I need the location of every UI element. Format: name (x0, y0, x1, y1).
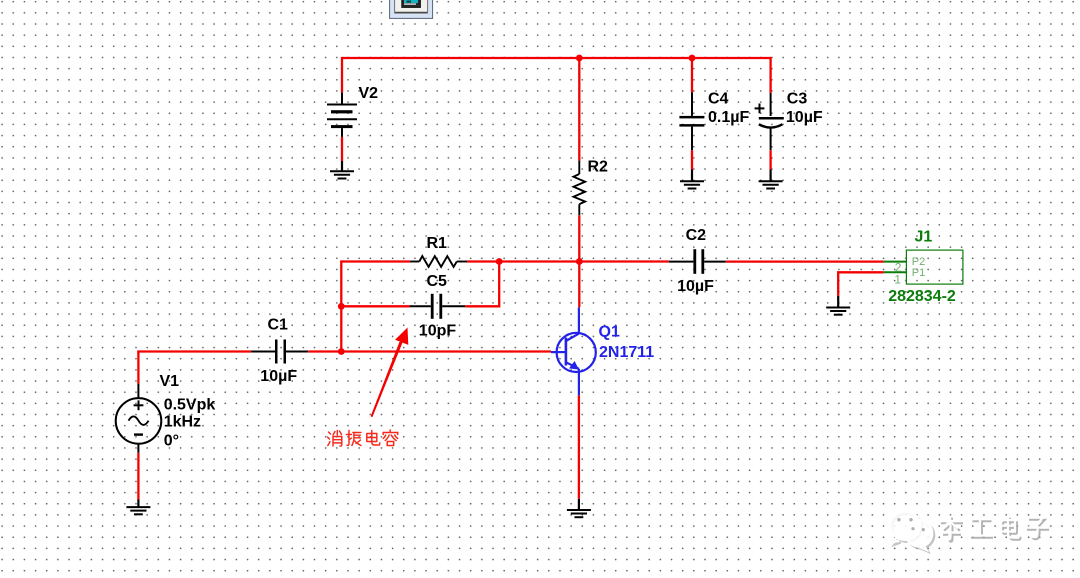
svg-text:V2: V2 (359, 85, 379, 102)
ground (C3) (759, 169, 783, 188)
wire: R2 to collector junction (578, 215, 580, 307)
wire: C5 right + riser to R1 row (465, 262, 499, 307)
glyph rong (383, 430, 398, 446)
wire: J1 pin1 to ground (838, 272, 883, 296)
svg-text:10µF: 10µF (786, 109, 823, 126)
svg-text:10µF: 10µF (260, 368, 297, 385)
capacitor C3 (polarized) (755, 93, 784, 150)
wire: C2 to J1 (726, 260, 884, 262)
capacitor C2 (669, 249, 726, 274)
svg-text:R1: R1 (427, 235, 448, 252)
watermark text li gong dian zi (939, 516, 1049, 542)
wire: collector row to C2 (579, 260, 668, 262)
capacitor C5 (410, 294, 466, 319)
wire: main row V1 to C1 (138, 352, 251, 353)
svg-text:R2: R2 (588, 159, 609, 176)
glyph dian (367, 431, 380, 446)
transistor Q1 (551, 307, 596, 395)
svg-text:1kHz: 1kHz (164, 413, 201, 430)
wire: V1 bottom lead (137, 453, 139, 500)
wire: C3 branch bottom (769, 150, 771, 169)
junction (feedback row / R2 column) (576, 258, 583, 265)
wire: left feedback riser (340, 262, 342, 352)
svg-text:1: 1 (894, 272, 901, 286)
annotation arrow (371, 328, 409, 418)
capacitor C1 (251, 340, 308, 364)
connector J1 (884, 250, 963, 286)
svg-text:C3: C3 (787, 91, 808, 108)
wire: V2 branch bottom (341, 137, 343, 161)
ground (V1) (126, 500, 150, 515)
wire: C3 branch top (rail corner) (770, 58, 771, 93)
svg-text:0.5Vpk: 0.5Vpk (164, 396, 216, 413)
watermark logo (890, 511, 934, 552)
wire: C4 branch top (691, 58, 693, 92)
svg-text:P1: P1 (912, 267, 925, 279)
svg-text:J1: J1 (915, 229, 933, 246)
annotation text 消振电容 (328, 430, 398, 446)
junction (rail / R2) (576, 55, 583, 62)
svg-text:0°: 0° (164, 432, 179, 449)
svg-text:C2: C2 (686, 227, 707, 244)
wire: C5 row left (341, 305, 409, 307)
wire: C4 branch bottom (691, 150, 693, 169)
svg-text:10pF: 10pF (419, 323, 457, 340)
wire: feedback row R1 left (341, 262, 410, 263)
glyph xiao (328, 431, 342, 447)
resistor R2 (574, 161, 586, 216)
ground (V2) (330, 161, 354, 179)
junction (main row / left riser) (338, 348, 345, 355)
wire: R2 branch from rail (578, 58, 580, 161)
svg-text:2N1711: 2N1711 (599, 344, 654, 361)
junction (rail / C4) (689, 55, 696, 62)
svg-text:C1: C1 (268, 316, 289, 333)
ground (Q1 emitter) (567, 499, 591, 517)
source V1 (116, 384, 162, 453)
capacitor C4 (679, 92, 704, 150)
junction (R1 / C5 riser) (496, 258, 503, 265)
glyph zhen (346, 431, 361, 446)
svg-text:C5: C5 (427, 273, 448, 290)
svg-text:10µF: 10µF (677, 278, 714, 295)
resistor R1 (410, 256, 467, 267)
wire: V2 branch top (341, 57, 343, 93)
svg-text:Q1: Q1 (599, 323, 620, 340)
wire: C1 to base (308, 350, 551, 352)
wire: R1 right to junction (467, 260, 499, 262)
svg-text:V1: V1 (160, 373, 180, 390)
svg-text:282834-2: 282834-2 (888, 288, 956, 305)
wire: top rail (342, 57, 771, 59)
wire: emitter to ground (578, 395, 580, 499)
junction (C5 row / left riser) (338, 303, 345, 310)
wire: junction to R2 column (499, 260, 579, 262)
wire: V1 top lead (137, 352, 139, 384)
svg-text:C4: C4 (708, 91, 729, 108)
ground (J1) (826, 296, 850, 315)
toolbar icon (390, 0, 433, 18)
battery V2 (327, 93, 357, 137)
svg-text:0.1µF: 0.1µF (708, 109, 749, 126)
ground (C4) (680, 169, 704, 188)
